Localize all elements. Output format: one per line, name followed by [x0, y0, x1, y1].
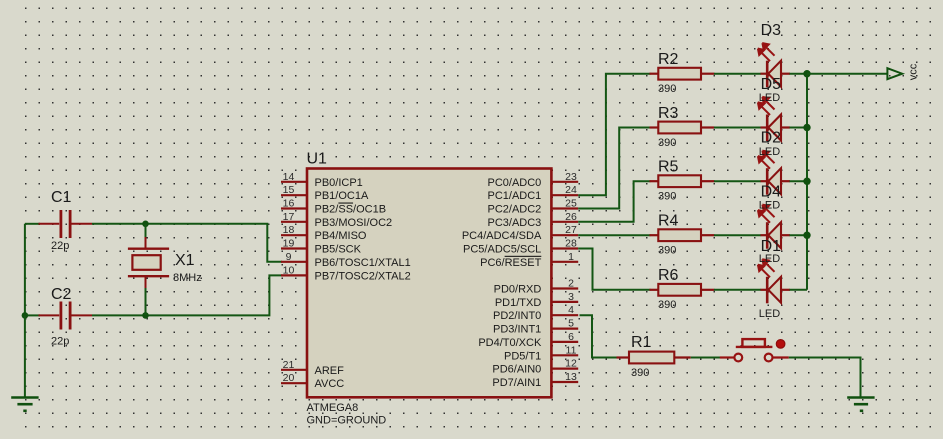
svg-text:390: 390 [658, 83, 676, 95]
svg-text:R5: R5 [658, 159, 679, 176]
svg-text:PD2/INT0: PD2/INT0 [493, 310, 541, 322]
led D5 anode lead [781, 126, 790, 128]
svg-text:19: 19 [283, 238, 295, 250]
wire left rail C1 to C2 [24, 224, 26, 316]
led D2 emission arrows [758, 151, 775, 169]
wire PD2 pin4 to R1 [580, 315, 618, 357]
crystal X1 body [132, 255, 160, 270]
svg-text:16: 16 [283, 198, 295, 210]
led D4 anode lead [781, 234, 790, 236]
capacitor C2 leads [39, 314, 60, 316]
svg-text:23: 23 [565, 171, 577, 183]
svg-text:PB0/ICP1: PB0/ICP1 [315, 177, 363, 189]
svg-text:GND=GROUND: GND=GROUND [307, 415, 387, 427]
led D5 emission arrows [758, 97, 775, 115]
resistor R6 leads [650, 289, 660, 291]
resistor R3 leads [650, 126, 660, 128]
svg-text:D5: D5 [761, 76, 782, 93]
svg-text:390: 390 [631, 367, 649, 379]
led D5 cathode lead [761, 126, 767, 128]
svg-text:6: 6 [568, 331, 574, 343]
pin 4 PD2 stub [551, 314, 578, 316]
svg-text:17: 17 [283, 211, 295, 223]
svg-text:PB1/OC1A: PB1/OC1A [315, 190, 369, 202]
ic U1 ATMEGA8 body [307, 169, 551, 398]
wire button to ground [789, 358, 861, 398]
svg-text:R3: R3 [658, 105, 679, 122]
svg-text:14: 14 [283, 171, 295, 183]
svg-text:390: 390 [658, 137, 676, 149]
svg-text:3: 3 [568, 291, 574, 303]
pin 18 PB4 stub [281, 234, 307, 236]
pin 6 PD4 stub [551, 341, 578, 343]
pin 12 PD6 stub [551, 368, 578, 370]
crystal X1 bottom lead red [145, 276, 147, 289]
svg-text:LED: LED [759, 146, 780, 158]
button left terminal [734, 354, 742, 362]
pin 24 PC1 stub [551, 194, 578, 196]
resistor R2 leads [650, 73, 660, 75]
wire led D1 to bus [790, 289, 808, 291]
svg-text:LED: LED [759, 92, 780, 104]
crystal X1 bottom plate [128, 275, 169, 277]
svg-text:D4: D4 [761, 183, 782, 200]
resistor R1 body [629, 352, 674, 364]
button plunger [742, 339, 765, 347]
pin 28 PC5 stub [551, 247, 578, 249]
led D3 emission arrows [758, 43, 775, 61]
wire led D5 to bus [790, 127, 808, 129]
svg-text:PD5/T1: PD5/T1 [504, 350, 541, 362]
svg-text:25: 25 [565, 198, 577, 210]
svg-text:PC1/ADC1: PC1/ADC1 [488, 190, 542, 202]
wire PC2 pin25 to R3 [578, 128, 650, 209]
svg-text:PB6/TOSC1/XTAL1: PB6/TOSC1/XTAL1 [315, 257, 411, 269]
led D3 cathode bar [766, 61, 769, 87]
wire led D3 to bus [790, 73, 808, 75]
node junction C2-X1 [142, 312, 149, 319]
led D5 cathode bar [766, 115, 769, 142]
svg-text:PC2/ADC2: PC2/ADC2 [488, 204, 542, 216]
svg-text:390: 390 [658, 191, 676, 203]
pin 16 PB2 stub [281, 207, 307, 209]
resistor R4 leads [650, 234, 660, 236]
svg-text:vcc: vcc [908, 63, 920, 80]
svg-text:PD0/RXD: PD0/RXD [494, 284, 542, 296]
button bridge bar [736, 346, 773, 348]
button right terminal [765, 354, 773, 362]
led D5 triangle [768, 115, 781, 141]
wire led D4 to bus [790, 234, 808, 236]
pin 3 PD1 stub [551, 301, 578, 303]
pin 2 PD0 stub [551, 287, 578, 289]
wire C2 to PB7/XTAL2 [92, 275, 282, 315]
svg-text:24: 24 [565, 184, 577, 196]
resistor R2 body [658, 68, 701, 80]
pin 9 PB6 stub [281, 261, 307, 263]
pin 13 PD7 stub [551, 381, 578, 383]
wire PC3 pin26 to R5 [578, 181, 650, 222]
svg-text:R1: R1 [631, 334, 652, 351]
svg-text:R6: R6 [658, 267, 679, 284]
svg-text:21: 21 [283, 359, 295, 371]
svg-text:LED: LED [759, 308, 780, 320]
pin 5 PD3 stub [551, 328, 578, 330]
svg-text:9: 9 [286, 251, 292, 263]
svg-text:AVCC: AVCC [315, 378, 345, 390]
resistor R1 leads [617, 356, 630, 358]
wire R2 to LED [714, 73, 761, 75]
svg-text:18: 18 [283, 224, 295, 236]
svg-text:U1: U1 [307, 151, 328, 168]
pin 1 PC6 stub [551, 261, 578, 263]
wire vcc bus vertical [806, 74, 808, 290]
svg-text:8MHz: 8MHz [173, 272, 202, 284]
power terminal VCC arrow [887, 68, 902, 79]
led D4 cathode lead [761, 234, 767, 236]
svg-text:PB4/MISO: PB4/MISO [315, 230, 367, 242]
svg-text:AREF: AREF [315, 365, 345, 377]
led D1 anode lead [781, 289, 790, 291]
svg-text:C2: C2 [51, 286, 72, 303]
svg-text:PC5/ADC5/SCL: PC5/ADC5/SCL [463, 244, 541, 256]
capacitor C1 plates [60, 210, 63, 238]
button left lead [720, 356, 734, 358]
led D2 cathode lead [761, 180, 767, 182]
pin 17 PB3 stub [281, 221, 307, 223]
led D1 cathode lead [761, 289, 767, 291]
pin 10 PB7 stub [281, 274, 307, 276]
ground symbol left [11, 396, 38, 399]
ground symbol right [847, 396, 874, 399]
svg-text:PB2/SS/OC1B: PB2/SS/OC1B [315, 204, 387, 216]
svg-text:D1: D1 [761, 238, 782, 255]
crystal X1 top plate [128, 247, 169, 249]
svg-text:28: 28 [565, 238, 577, 250]
wire C1 left segment to left rail [25, 223, 40, 225]
pin 27 PC4 stub [551, 234, 578, 236]
svg-text:PC4/ADC4/SDA: PC4/ADC4/SDA [462, 230, 542, 242]
svg-text:PB3/MOSI/OC2: PB3/MOSI/OC2 [315, 217, 393, 229]
wire R1 to button [691, 357, 721, 359]
button actuator red dot [776, 340, 785, 349]
svg-text:1: 1 [568, 251, 574, 263]
button right lead [773, 356, 789, 358]
svg-text:22p: 22p [51, 336, 69, 348]
svg-text:LED: LED [759, 253, 780, 265]
svg-text:R2: R2 [658, 51, 679, 68]
wire C2 left segment [25, 314, 40, 316]
wire left rail to ground [24, 315, 26, 397]
wire led D2 to bus [790, 180, 808, 182]
pin 21 AREF stub [281, 369, 307, 371]
wire R5 to LED [714, 180, 761, 182]
led D4 triangle [768, 222, 781, 248]
wire R6 to LED [714, 289, 761, 291]
svg-text:PD3/INT1: PD3/INT1 [493, 324, 541, 336]
node junction bus D4 [803, 232, 810, 239]
svg-text:LED: LED [759, 200, 780, 212]
svg-text:27: 27 [565, 224, 577, 236]
svg-text:PB5/SCK: PB5/SCK [315, 244, 362, 256]
svg-text:5: 5 [568, 318, 574, 330]
wire X1 bottom lead [145, 288, 147, 315]
crystal X1 top lead red [145, 237, 147, 249]
led D1 emission arrows [758, 259, 775, 277]
led D4 cathode bar [766, 222, 769, 249]
svg-text:C1: C1 [51, 189, 72, 206]
capacitor C2 plates [60, 302, 63, 330]
resistor R6 body [658, 284, 701, 296]
svg-text:22p: 22p [51, 240, 69, 252]
resistor R5 body [658, 175, 701, 187]
led D1 cathode bar [766, 277, 769, 304]
pin 23 PC0 stub [551, 181, 578, 183]
node junction bus D2 [803, 178, 810, 185]
wire R4 to LED [714, 234, 761, 236]
svg-text:PD1/TXD: PD1/TXD [495, 297, 542, 309]
led D3 cathode lead [761, 73, 767, 75]
wire PC1 pin24 to R2 [578, 74, 650, 196]
svg-text:D3: D3 [761, 22, 782, 39]
led D3 triangle [768, 61, 781, 87]
svg-text:390: 390 [658, 245, 676, 257]
node junction C1-X1 [142, 221, 149, 228]
resistor R5 leads [650, 180, 660, 182]
svg-text:PD7/AIN1: PD7/AIN1 [492, 377, 541, 389]
svg-text:26: 26 [565, 211, 577, 223]
svg-text:X1: X1 [175, 252, 195, 269]
svg-text:4: 4 [568, 304, 574, 316]
svg-text:PC3/ADC3: PC3/ADC3 [488, 217, 542, 229]
svg-text:PC0/ADC0: PC0/ADC0 [488, 177, 542, 189]
wire R3 to LED [714, 127, 761, 129]
svg-text:PD4/T0/XCK: PD4/T0/XCK [478, 337, 542, 349]
pin 20 AVCC stub [281, 382, 307, 384]
node junction bus top [803, 70, 810, 77]
svg-text:13: 13 [565, 371, 577, 383]
svg-text:D2: D2 [761, 130, 782, 147]
led D2 anode lead [781, 180, 790, 182]
capacitor C1 leads [39, 223, 60, 225]
svg-text:PD6/AIN0: PD6/AIN0 [492, 364, 541, 376]
resistor R4 body [658, 229, 701, 241]
led D2 cathode bar [766, 168, 769, 195]
pin 14 PB0 stub [281, 181, 307, 183]
svg-text:11: 11 [566, 344, 577, 356]
led D1 triangle [768, 277, 781, 303]
pin 11 PD5 stub [551, 354, 578, 356]
svg-text:R4: R4 [658, 213, 679, 230]
resistor R3 body [658, 122, 701, 134]
wire X1 top lead [145, 224, 147, 238]
svg-text:390: 390 [658, 299, 676, 311]
led D3 anode lead [781, 73, 790, 75]
led D2 triangle [768, 168, 781, 194]
svg-text:PB7/TOSC2/XTAL2: PB7/TOSC2/XTAL2 [315, 270, 411, 282]
svg-text:10: 10 [283, 264, 295, 276]
node junction C2-left rail [22, 312, 29, 319]
wire PC5 pin28 to R6 [578, 249, 650, 290]
pin 25 PC2 stub [551, 207, 578, 209]
node junction bus D5 [803, 124, 810, 131]
svg-text:PC6/RESET: PC6/RESET [480, 257, 541, 269]
svg-text:20: 20 [283, 372, 295, 384]
wire PC4 pin27 to R4 [578, 234, 650, 236]
svg-text:12: 12 [565, 358, 577, 370]
wire C1 to PB6/XTAL1 [92, 224, 282, 262]
svg-text:2: 2 [568, 278, 574, 290]
pin 15 PB1 stub [281, 194, 307, 196]
svg-text:15: 15 [283, 184, 295, 196]
wire bus to VCC terminal [807, 73, 887, 75]
led D4 emission arrows [758, 205, 775, 223]
svg-text:ATMEGA8: ATMEGA8 [307, 402, 359, 414]
pin 19 PB5 stub [281, 247, 307, 249]
pin 26 PC3 stub [551, 221, 578, 223]
